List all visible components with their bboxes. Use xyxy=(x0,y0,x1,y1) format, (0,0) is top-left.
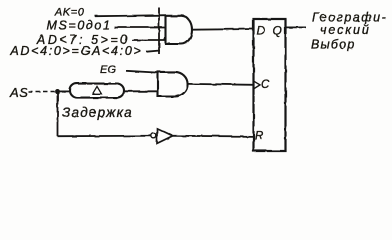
svg-text:AS: AS xyxy=(9,85,29,100)
net label AD<7:5>=0 xyxy=(36,33,130,47)
wire xyxy=(124,90,158,92)
svg-text:Q: Q xyxy=(273,24,282,38)
wire xyxy=(114,27,166,29)
label Задержка xyxy=(62,105,133,120)
flip-flop U3 xyxy=(254,19,286,151)
svg-text:MS=0до1: MS=0до1 xyxy=(46,19,111,33)
net label EG xyxy=(100,64,117,76)
wire xyxy=(147,51,161,52)
wire xyxy=(192,28,254,31)
clock input triangle xyxy=(254,81,260,88)
wire xyxy=(132,39,166,41)
svg-text:ческий: ческий xyxy=(320,23,371,37)
wire xyxy=(57,92,59,137)
pin label C xyxy=(261,79,270,91)
wire xyxy=(173,135,254,138)
net label AS xyxy=(9,85,29,100)
wire xyxy=(188,83,254,86)
svg-text:EG: EG xyxy=(100,64,117,76)
svg-text:AK=0: AK=0 xyxy=(54,7,85,19)
wire xyxy=(58,135,152,137)
svg-text:Задержка: Задержка xyxy=(62,105,133,120)
svg-text:Выбор: Выбор xyxy=(311,38,355,52)
svg-text:AD<4:0>=GA<4:0>: AD<4:0>=GA<4:0> xyxy=(9,44,142,58)
pin label Q xyxy=(273,24,282,38)
wire xyxy=(126,71,158,73)
svg-text:R: R xyxy=(255,130,263,142)
inverter U4 xyxy=(151,128,173,143)
wire xyxy=(28,91,55,93)
svg-text:C: C xyxy=(261,79,270,91)
pin label R xyxy=(255,130,263,142)
wire xyxy=(286,26,307,28)
delay element D1 xyxy=(70,84,124,98)
wire xyxy=(95,15,166,16)
and-gate U2 xyxy=(158,72,188,97)
net label AD<4:0>=GA<4:0> xyxy=(9,44,142,58)
and-gate U1 xyxy=(159,8,192,55)
net label Географический выбор xyxy=(311,11,387,52)
net label AK=0 xyxy=(54,7,85,19)
svg-text:D: D xyxy=(257,24,266,38)
net label MS=0до1 xyxy=(46,19,111,33)
wire xyxy=(58,90,71,92)
junction xyxy=(55,89,60,94)
pin label D xyxy=(257,24,266,38)
